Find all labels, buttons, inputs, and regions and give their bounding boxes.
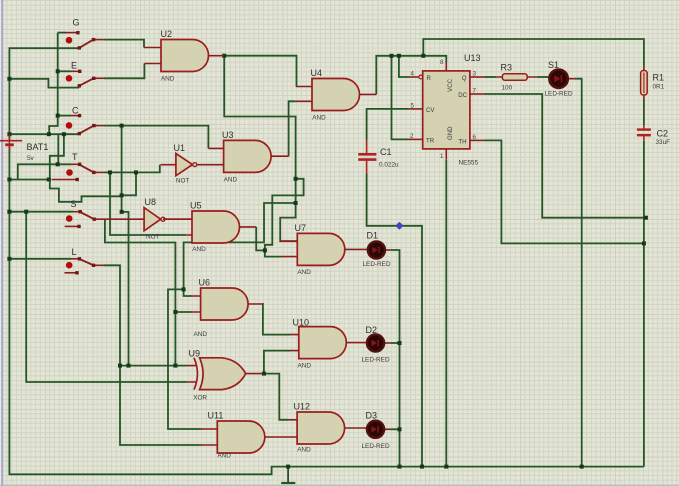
junction: U2 output (222, 54, 226, 58)
junction: D2 tap (398, 341, 402, 345)
U4 pins (296, 87, 377, 102)
svg-text:NOT: NOT (146, 234, 160, 241)
junction: R hook (397, 54, 401, 58)
wire: hook to U7 input B (265, 179, 304, 257)
junction: C output branch (120, 124, 124, 128)
junction: D3 tap (398, 427, 402, 431)
wire: R3 to S1 (538, 76, 549, 78)
junction: T branch 2 (134, 170, 138, 174)
wire: 555 ground lead to bottom rail (445, 160, 447, 467)
svg-text:4: 4 (411, 71, 415, 78)
U1 pins (161, 164, 176, 166)
junction: S chain joins U9 line (173, 364, 177, 368)
svg-text:AND: AND (161, 76, 175, 83)
switch S open bottom line (65, 225, 79, 227)
svg-text:GND: GND (447, 126, 454, 140)
svg-text:LED-RED: LED-RED (363, 261, 391, 268)
led D1 (366, 248, 369, 250)
switch L lever (79, 259, 93, 265)
junction: rail C1 drop (420, 465, 424, 469)
svg-text:U12: U12 (294, 402, 311, 412)
svg-text:AND: AND (298, 363, 312, 370)
junction: L branch to U9 (118, 364, 122, 368)
junction: ground node (286, 465, 290, 469)
svg-text:AND: AND (297, 447, 311, 454)
wire: L branch to U9 input A (120, 365, 187, 367)
junction: top rail at 555 (421, 54, 425, 58)
junction: V1 hook (294, 177, 298, 181)
switch E common stub (94, 77, 104, 79)
junction: rail S1 drop (580, 465, 584, 469)
wire: C top throw line (58, 115, 71, 117)
svg-text:U1: U1 (174, 143, 186, 153)
U12 pins (288, 420, 367, 428)
wire: E top throw line (58, 70, 71, 72)
and gate U11 body (217, 421, 264, 453)
junction: rail minus T tap (7, 178, 11, 182)
wire: C1 top to 555 CV pin (367, 109, 408, 141)
wire: C branch down to U8 input (122, 126, 129, 220)
svg-text:NOT: NOT (176, 178, 190, 185)
and gate U3 body (224, 140, 272, 172)
svg-text:R3: R3 (501, 63, 513, 73)
svg-text:AND: AND (192, 246, 206, 253)
svg-text:U5: U5 (190, 201, 202, 211)
led D3 (366, 427, 369, 429)
and gate U2 body (161, 40, 209, 72)
wire: S feed from rail (9, 211, 73, 213)
left window border (0, 0, 1, 486)
svg-text:D2: D2 (366, 325, 378, 335)
switch C common stub (94, 125, 104, 127)
junction: rail S tap (7, 210, 11, 214)
svg-text:LED-RED: LED-RED (545, 90, 573, 97)
svg-text:6: 6 (473, 134, 477, 141)
svg-text:S1: S1 (548, 60, 559, 70)
svg-text:AND: AND (297, 269, 311, 276)
and gate U7 body (297, 233, 345, 265)
svg-text:5v: 5v (27, 155, 35, 162)
svg-text:G: G (73, 18, 80, 28)
switch L open bottom line (65, 272, 78, 274)
svg-text:U4: U4 (311, 68, 323, 78)
U11 pins (202, 429, 298, 445)
U9 pins (187, 366, 262, 382)
wire: S chain down left of gates (105, 219, 175, 365)
junction: battery+ jog (62, 132, 66, 136)
wire: top rail to R1 column (423, 39, 644, 67)
switch C open throw end (71, 115, 79, 117)
bottom window edge (0, 485, 679, 486)
and gate U12 body (297, 412, 345, 444)
not gate U8 bubble (161, 217, 165, 221)
wire: minus rail stub to T top feed (9, 179, 48, 181)
wire: hook to 555 reset pin (399, 56, 409, 77)
resistor R3 (496, 76, 537, 78)
svg-text:U11: U11 (208, 411, 224, 421)
ic U13 pin stubs (408, 62, 484, 160)
wire: U11 input A feeder from U6 net (168, 289, 202, 429)
junction: U6 feeder branch (182, 287, 186, 291)
svg-text:LED-RED: LED-RED (362, 356, 390, 363)
switch S indicator dot (66, 215, 73, 222)
wire: U9 output up to U10 input B (264, 351, 290, 374)
U3 pins (197, 148, 289, 164)
switch S terminal squares (79, 210, 82, 213)
wire: U9 lower input from rail tap (26, 212, 186, 382)
svg-text:U8: U8 (145, 197, 157, 207)
svg-text:T: T (72, 152, 78, 162)
svg-text:E: E (71, 61, 77, 71)
svg-text:C1: C1 (380, 147, 392, 157)
U6 pins (192, 296, 263, 312)
wire: C1 bottom to rail (367, 173, 422, 466)
wire: U8 drop to U9 input line (128, 219, 130, 365)
junction: column E top (56, 69, 60, 73)
switch C terminal squares (78, 114, 81, 117)
junction: column A at battery+ (47, 132, 51, 136)
junction: rail D1 column (398, 465, 402, 469)
switch T terminal squares (78, 163, 81, 166)
switch L common stub (94, 264, 104, 266)
wire: DC pin to right column (484, 94, 646, 218)
wire: T branch jog to C drop (122, 172, 136, 195)
wire: E common to U2 input B (104, 64, 145, 79)
svg-text:U6: U6 (199, 278, 211, 288)
switch S pivot stub (73, 211, 80, 213)
wire: U2 output to U4 input A (224, 56, 296, 87)
wire: jog from battery+ down to T bottom area (50, 134, 122, 202)
switch T lever (80, 165, 94, 173)
svg-text:AND: AND (224, 177, 238, 184)
svg-text:DC: DC (458, 92, 467, 99)
wire: battery minus rail down left side (9, 146, 644, 474)
switch T indicator dot (66, 169, 73, 176)
wire: battery plus left rail and G feed (9, 48, 79, 140)
wire: L common down (103, 265, 201, 445)
wire: D2 stub to column (391, 342, 400, 344)
svg-text:CV: CV (426, 107, 435, 114)
resistor R1 (643, 67, 645, 100)
wire: U2 output down branch (224, 56, 295, 203)
svg-text:C2: C2 (657, 129, 669, 139)
switch L pivot stub (71, 258, 79, 260)
wire: hook to 555 trigger pin (392, 56, 409, 140)
wire: branch to U6 input A (184, 203, 296, 296)
xor gate U9 body (200, 358, 246, 390)
wire: switch NC bus column lower (57, 134, 59, 164)
switch G common stub (93, 39, 103, 41)
switch E terminal squares (78, 70, 81, 73)
junction: column C top (56, 114, 60, 118)
not gate U1 bubble (193, 163, 197, 167)
svg-text:S: S (71, 199, 77, 209)
svg-text:C: C (72, 106, 79, 116)
wire: C common to U3 input A with branch (104, 126, 209, 149)
wire: C2 bottom to rail (643, 141, 645, 467)
wire: ground stem (287, 467, 289, 483)
capacitor C1 (358, 141, 376, 174)
switch L terminal squares (78, 257, 81, 260)
junction: rail battery+ (7, 132, 11, 136)
U2 pins (144, 48, 224, 64)
junction: column T top (56, 162, 60, 166)
wire: U6 output to U10 input A (263, 303, 290, 335)
svg-text:2: 2 (410, 133, 414, 140)
switch T common stub (94, 171, 104, 173)
svg-text:5: 5 (411, 103, 415, 110)
switch G indicator dot (66, 37, 73, 44)
svg-text:0R1: 0R1 (653, 84, 665, 91)
ic U13 reset bubble (419, 75, 423, 79)
switch L indicator dot (66, 262, 73, 269)
svg-text:U3: U3 (222, 130, 234, 140)
junction: rail 555 gnd (444, 465, 448, 469)
U5 pins (163, 219, 256, 235)
led D2 (366, 342, 369, 344)
junction: TH at R1 column (642, 241, 646, 245)
junction: U5 out join (263, 248, 267, 252)
junction: T branch 1 (108, 170, 112, 174)
junction: U9 output (262, 372, 266, 376)
gate input/output pin stubs (dark red) (94, 48, 376, 446)
svg-text:3: 3 (473, 71, 477, 78)
node marker (blue diamond) (395, 222, 403, 230)
wire: U5 output join (256, 227, 265, 251)
wire: T top feed line (18, 164, 71, 179)
switch C indicator dot (66, 122, 73, 129)
U8 output pin (165, 218, 192, 220)
switch T open bottom line (52, 179, 77, 181)
switch G lever (79, 40, 93, 48)
svg-text:NE555: NE555 (459, 159, 479, 166)
switch T pivot stub (71, 163, 80, 165)
wire: D3 stub to column (391, 428, 400, 430)
wire: branch to U7 input A (280, 203, 297, 241)
wire: D1 cathode column (391, 250, 400, 467)
wire: T branch to U5 input B (110, 172, 186, 235)
switch G open throw end (66, 32, 78, 34)
junction: DC at R1 column (644, 216, 648, 220)
and gate U6 body (201, 288, 249, 320)
wire: U9 output to U12 input A (264, 374, 288, 420)
junction: x26 S line tap (24, 210, 28, 214)
U8 input line (94, 218, 144, 220)
switch E open throw end (71, 70, 79, 72)
wire: tap to U6 input B (175, 311, 192, 313)
svg-text:VCC: VCC (447, 78, 454, 91)
svg-text:L: L (72, 247, 77, 257)
wire: T common to U1 input (104, 165, 160, 173)
svg-text:AND: AND (312, 115, 326, 122)
svg-text:AND: AND (217, 453, 231, 460)
svg-text:8: 8 (440, 59, 444, 66)
battery BAT1 lead (8, 135, 10, 152)
ground bar (281, 482, 295, 484)
xor gate U9 back curve (194, 358, 197, 390)
svg-text:XOR: XOR (193, 395, 207, 402)
svg-text:U2: U2 (161, 29, 173, 39)
junction: rail E tap (7, 77, 11, 81)
svg-text:AND: AND (194, 331, 208, 338)
and gate U10 body (299, 327, 347, 359)
svg-text:0.022u: 0.022u (379, 161, 399, 168)
svg-text:D3: D3 (366, 411, 378, 421)
wire: U4 output up to 555 rail (376, 56, 446, 95)
junction: V1 lower (294, 201, 298, 205)
junction: U8 drop joins U9 line (127, 364, 131, 368)
junction: T bottom cross (47, 178, 51, 182)
junction: U6 in2 tap (173, 310, 177, 314)
svg-text:U7: U7 (295, 223, 307, 233)
svg-text:U13: U13 (464, 53, 481, 63)
battery BAT1 short plate (5, 143, 14, 146)
svg-text:TR: TR (426, 138, 435, 145)
capacitor C2 (637, 126, 651, 141)
wire: switch NC bus column upper (49, 33, 58, 134)
svg-text:33uF: 33uF (656, 139, 671, 146)
svg-text:BAT1: BAT1 (27, 142, 49, 152)
svg-text:7: 7 (473, 88, 477, 95)
ic U13 body (423, 71, 470, 149)
junction: TR hook (390, 54, 394, 58)
switch S lever (80, 212, 94, 219)
svg-text:R: R (427, 75, 432, 82)
svg-text:U10: U10 (293, 318, 310, 328)
svg-text:D1: D1 (367, 230, 379, 240)
not gate U8 triangle (144, 208, 161, 231)
and gate U4 body (312, 79, 360, 111)
U10 pins (290, 335, 367, 351)
svg-text:1: 1 (440, 153, 444, 160)
svg-text:LED-RED: LED-RED (362, 443, 390, 450)
wire: G common to U2 input A (104, 40, 144, 48)
and gate U5 body (192, 211, 240, 243)
junction: rail L tap (7, 257, 11, 261)
junction: C drop to U8 (120, 210, 124, 214)
not gate U1 triangle (176, 154, 193, 176)
switch E lever (79, 78, 93, 86)
junction: C drop at T jog (120, 193, 124, 197)
wire: E hook from rail to E switch pivot (9, 79, 79, 88)
svg-text:R1: R1 (653, 73, 665, 83)
svg-text:Q: Q (462, 75, 467, 82)
battery BAT1 long plate (0, 140, 22, 142)
wire: TH pin down and right to column (484, 140, 644, 243)
wire: battery plus feed to C pivot (9, 133, 78, 135)
switch G terminal squares (76, 31, 79, 34)
wire: G top throw line (58, 32, 66, 34)
wire: U3 output up to U4 input B (289, 101, 296, 156)
svg-text:TH: TH (458, 139, 466, 146)
svg-text:100: 100 (502, 85, 513, 92)
wire: Q pin to R3 (484, 76, 497, 78)
svg-text:U9: U9 (189, 349, 201, 359)
switch C lever (79, 126, 94, 134)
led S1 (549, 78, 575, 80)
wire: L feed from rail (9, 258, 71, 260)
wire: S1 to right drop (575, 79, 582, 467)
U7 pins (280, 241, 367, 256)
switch E indicator dot (66, 75, 73, 82)
wire: R1 to C2 link (643, 100, 645, 126)
